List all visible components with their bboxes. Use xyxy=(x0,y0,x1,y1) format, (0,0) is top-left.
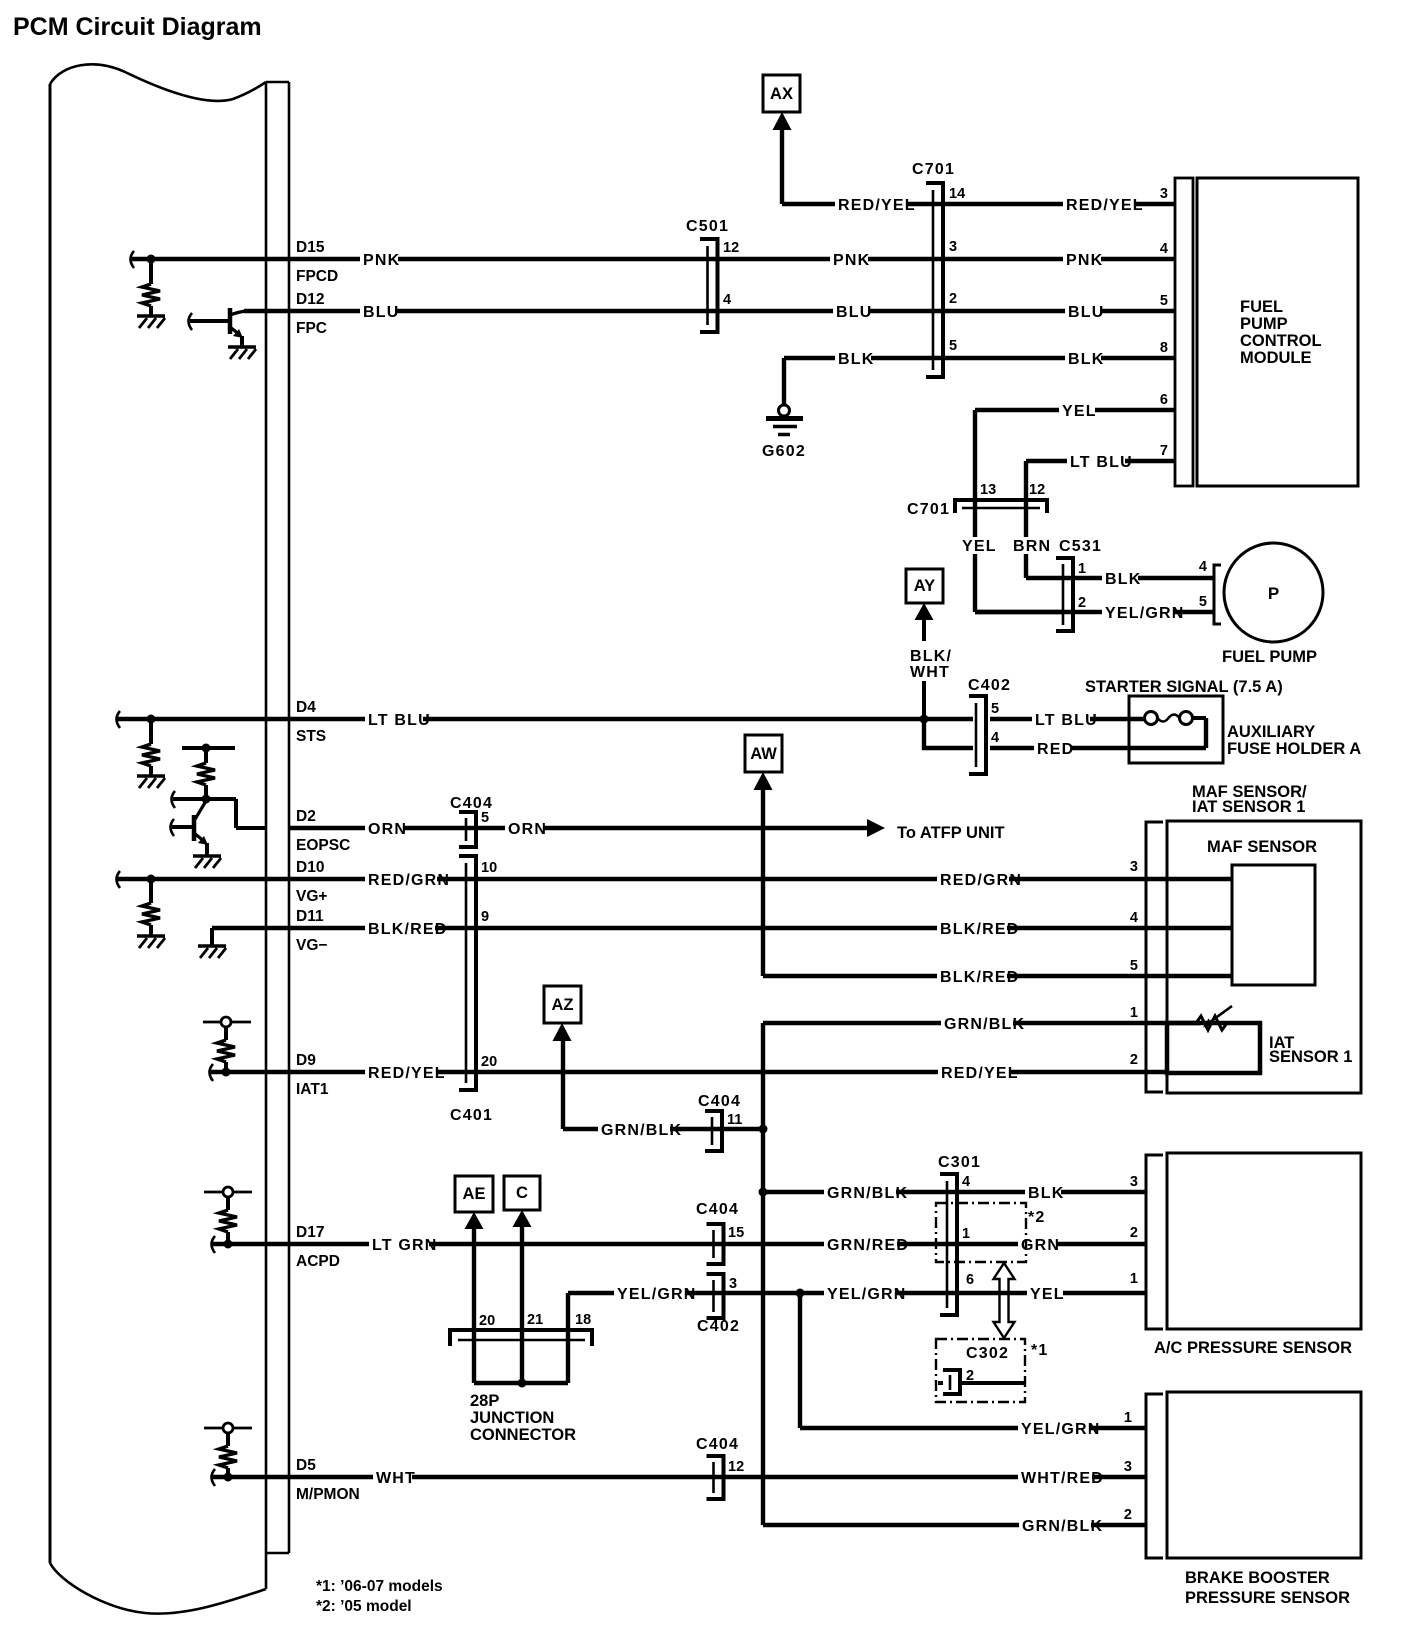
wire AX arrow shaft xyxy=(780,130,784,204)
svg-text:RED/YEL: RED/YEL xyxy=(1066,197,1144,214)
svg-text:6: 6 xyxy=(966,1272,974,1288)
PCM left edge xyxy=(49,84,52,1563)
label RED/GRN right xyxy=(937,871,1022,889)
label YEL/GRN row C301 xyxy=(824,1285,907,1303)
label RED/YEL right xyxy=(938,1064,1019,1082)
wire ORN row (D2/EOPSC) to ATFP arrow xyxy=(289,826,868,830)
svg-text:2: 2 xyxy=(1078,595,1086,611)
hook Q1 base lead-in xyxy=(189,313,193,330)
svg-text:4: 4 xyxy=(1199,559,1207,575)
svg-text:LT GRN: LT GRN xyxy=(372,1237,438,1254)
hook D10 lead-in xyxy=(117,871,121,888)
fuel pump bracket xyxy=(1214,565,1221,624)
label PNK right of C701 xyxy=(1063,251,1103,269)
label GRN/BLK row MAF1 xyxy=(941,1015,1025,1033)
wire R4 to ground xyxy=(149,925,153,936)
svg-text:1: 1 xyxy=(1130,1005,1138,1021)
label RED at C402 xyxy=(1034,740,1074,758)
hook collector line lead-in xyxy=(172,791,176,808)
IAT sensor element box xyxy=(1167,1023,1260,1073)
wire R2 to ground xyxy=(149,766,153,776)
wire LT GRN row (D17/ACPD) GRN/RED to A/C sensor pin 2 xyxy=(212,1242,1146,1246)
svg-text:GRN/BLK: GRN/BLK xyxy=(1022,1518,1103,1535)
resistor R6 (ACPD pull-up) xyxy=(219,1210,237,1232)
wire M/PMON supply rail xyxy=(204,1427,252,1430)
label D2/EOPSC xyxy=(296,808,350,854)
svg-text:BLK/: BLK/ xyxy=(910,648,952,665)
label D15/FPCD xyxy=(296,239,338,285)
svg-text:15: 15 xyxy=(728,1225,744,1241)
svg-text:AE: AE xyxy=(463,1185,486,1203)
svg-text:STS: STS xyxy=(296,728,326,745)
label GRN/BLK bottom row xyxy=(1019,1517,1103,1535)
svg-text:PRESSURE SENSOR: PRESSURE SENSOR xyxy=(1185,1589,1350,1607)
wire R1 to ground xyxy=(149,306,153,316)
svg-text:1: 1 xyxy=(962,1226,970,1242)
svg-text:5: 5 xyxy=(481,810,489,826)
svg-text:C402: C402 xyxy=(697,1318,740,1335)
svg-text:To ATFP UNIT: To ATFP UNIT xyxy=(897,824,1005,842)
svg-text:2: 2 xyxy=(1124,1507,1132,1523)
svg-text:C701: C701 xyxy=(912,161,955,178)
brake booster bracket xyxy=(1146,1394,1163,1558)
label BRN vertical xyxy=(1010,537,1051,555)
node 28P bus junction xyxy=(518,1379,527,1388)
svg-text:5: 5 xyxy=(991,701,999,717)
connector AY box xyxy=(906,569,943,719)
wire WHT row (D5/M-PMON) WHT/RED to brake booster pin 3 xyxy=(212,1475,1146,1479)
svg-text:2: 2 xyxy=(966,1368,974,1384)
label BLK/WHT xyxy=(910,648,952,681)
svg-text:D12: D12 xyxy=(296,291,324,308)
label BLU left of C701 xyxy=(833,303,872,321)
hook D15 lead-in xyxy=(131,251,135,268)
connector 28P junction (pins 20/21/18) xyxy=(450,1330,592,1346)
svg-text:P: P xyxy=(1268,584,1279,603)
wire LT BLU row corner to FPCM pin 7 xyxy=(1026,461,1175,578)
svg-text:2: 2 xyxy=(949,291,957,307)
svg-text:LT BLU: LT BLU xyxy=(368,712,431,729)
ground G602 symbol xyxy=(766,405,803,435)
wire GRN/BLK bottom row to brake booster pin 2 xyxy=(763,1523,1146,1527)
label D10/VG+ xyxy=(296,859,327,905)
resistor R3 (EOPSC pull-up) xyxy=(197,763,215,785)
connector C301 (pins 4/1/6) xyxy=(940,1174,957,1315)
svg-text:BLK/RED: BLK/RED xyxy=(368,921,448,938)
label GRN/BLK at AZ xyxy=(598,1121,682,1139)
wire G602 lead xyxy=(782,358,786,405)
connector C401 (pins 10/9/20) xyxy=(459,856,476,1090)
svg-text:YEL: YEL xyxy=(1030,1286,1065,1303)
PCM connector bar right line xyxy=(288,82,291,1553)
svg-text:10: 10 xyxy=(481,860,497,876)
svg-text:9: 9 xyxy=(481,909,489,925)
svg-text:11: 11 xyxy=(727,1112,742,1128)
svg-text:IAT1: IAT1 xyxy=(296,1081,329,1098)
ground (STS pull-down) xyxy=(137,776,165,788)
label D17/ACPD xyxy=(296,1224,340,1270)
svg-text:BRN: BRN xyxy=(1013,538,1051,555)
node supply rail junction xyxy=(202,744,211,753)
label PNK left of C701 xyxy=(830,251,870,269)
svg-text:3: 3 xyxy=(1130,1174,1138,1190)
svg-text:FPCD: FPCD xyxy=(296,268,338,285)
wire GRN/BLK row to IAT sensor pin 1 xyxy=(763,1021,1200,1025)
thermistor arrow xyxy=(1203,1006,1232,1028)
svg-text:WHT: WHT xyxy=(376,1470,416,1487)
label BLK left of C701 xyxy=(835,350,874,368)
svg-text:2: 2 xyxy=(1130,1052,1138,1068)
wire ACPD supply rail xyxy=(204,1191,252,1194)
wire BLK/RED row (D11/VG-) to MAF pin 4 xyxy=(212,926,1232,930)
wire AE arrow shaft to 28P pin 20 xyxy=(472,1227,476,1383)
label GRN/BLK row C301 xyxy=(824,1184,908,1202)
svg-text:ORN: ORN xyxy=(508,821,547,838)
svg-text:LT BLU: LT BLU xyxy=(1035,712,1098,729)
label YEL/GRN at C531 xyxy=(1102,604,1185,622)
svg-text:GRN/BLK: GRN/BLK xyxy=(827,1185,908,1202)
label BLK at C531 xyxy=(1102,570,1141,588)
svg-text:FUEL PUMP: FUEL PUMP xyxy=(1222,648,1317,666)
svg-text:28P: 28P xyxy=(470,1392,499,1410)
double arrow C301/C302 xyxy=(994,1263,1015,1338)
svg-text:WHT: WHT xyxy=(910,664,950,681)
svg-text:12: 12 xyxy=(723,240,739,256)
label GRN/RED row C301 xyxy=(824,1236,909,1254)
svg-text:12: 12 xyxy=(1029,482,1045,498)
label ORN right of C404 xyxy=(505,820,547,838)
wire R5 bottom lead xyxy=(224,1062,228,1072)
node C404-11 junction xyxy=(759,1125,768,1134)
FPCM connector bar xyxy=(1175,178,1193,486)
label PNK left of C501 xyxy=(360,251,400,269)
wire BLK row from G602 corner to FPCM pin 8 xyxy=(784,356,1175,360)
hook D17 lead-in xyxy=(212,1236,216,1253)
svg-text:4: 4 xyxy=(962,1174,970,1190)
svg-text:2: 2 xyxy=(1130,1225,1138,1241)
svg-text:3: 3 xyxy=(1160,186,1168,202)
label WHT/RED row xyxy=(1018,1469,1104,1487)
wire R7 top lead xyxy=(226,1433,230,1446)
wire YEL/GRN C531 pin2 to fuel pump pin 5 xyxy=(975,610,1214,614)
label D11/VG- xyxy=(296,908,327,954)
svg-text:ORN: ORN xyxy=(368,821,407,838)
node ACPD supply terminal circle xyxy=(223,1187,233,1197)
svg-text:VG−: VG− xyxy=(296,937,327,954)
svg-text:C501: C501 xyxy=(686,218,729,235)
svg-text:CONTROL: CONTROL xyxy=(1240,332,1322,350)
wire AZ arrow shaft xyxy=(561,1040,565,1129)
svg-text:AY: AY xyxy=(914,577,935,595)
svg-text:D10: D10 xyxy=(296,859,324,876)
svg-text:FUEL: FUEL xyxy=(1240,298,1283,316)
svg-text:D15: D15 xyxy=(296,239,325,256)
svg-text:JUNCTION: JUNCTION xyxy=(470,1409,554,1427)
svg-text:D4: D4 xyxy=(296,699,316,716)
node STS/BLK-WHT junction xyxy=(920,715,929,724)
svg-text:GRN/BLK: GRN/BLK xyxy=(944,1016,1025,1033)
connector C402 pin 3 xyxy=(707,1274,724,1318)
svg-text:YEL/GRN: YEL/GRN xyxy=(1021,1421,1101,1438)
connector C404 pin 15 xyxy=(707,1224,724,1264)
PCM connector bar left line xyxy=(265,82,268,1589)
fuse holder box xyxy=(1129,696,1223,763)
svg-text:IAT SENSOR 1: IAT SENSOR 1 xyxy=(1192,798,1305,816)
wire R5 top lead xyxy=(224,1027,228,1040)
svg-text:BLU: BLU xyxy=(363,304,399,321)
svg-text:G602: G602 xyxy=(762,443,806,460)
svg-text:RED/GRN: RED/GRN xyxy=(940,872,1022,889)
label BLK/RED row AW xyxy=(937,968,1020,986)
svg-text:ACPD: ACPD xyxy=(296,1253,340,1270)
MAF assembly outer box xyxy=(1167,821,1361,1093)
transistor Q2 (EOPSC driver) xyxy=(194,801,208,856)
label BLK at C301 xyxy=(1025,1184,1064,1202)
svg-text:RED/GRN: RED/GRN xyxy=(368,872,450,889)
svg-text:BLK: BLK xyxy=(1105,571,1141,588)
svg-text:GRN/RED: GRN/RED xyxy=(827,1237,909,1254)
connector C404 pin 12 xyxy=(707,1456,724,1499)
wire Q1 base lead xyxy=(190,319,228,323)
svg-text:YEL/GRN: YEL/GRN xyxy=(827,1286,907,1303)
svg-text:PNK: PNK xyxy=(363,252,400,269)
connector AX box xyxy=(763,75,800,130)
svg-text:5: 5 xyxy=(1130,958,1138,974)
label BLK/RED right xyxy=(937,920,1020,938)
label D4/STS xyxy=(296,699,326,745)
svg-text:C404: C404 xyxy=(698,1093,741,1110)
label D5/M-PMON xyxy=(296,1457,360,1503)
svg-text:RED/YEL: RED/YEL xyxy=(838,197,916,214)
label LT BLU at C402 xyxy=(1032,711,1098,729)
wire R6 bottom lead xyxy=(226,1232,230,1244)
svg-text:AUXILIARY: AUXILIARY xyxy=(1227,723,1315,741)
wire RED/YEL row (D9/IAT1) to MAF pin 2 xyxy=(210,1070,1167,1074)
wire BLK/RED row AW branch to MAF pin 5 xyxy=(763,974,1232,978)
resistor R5 (IAT1 pull-up) xyxy=(217,1040,235,1062)
svg-text:3: 3 xyxy=(729,1276,737,1292)
connector C531 xyxy=(1056,558,1073,631)
wire YEL/GRN row to A/C sensor pin 1 xyxy=(568,1291,1146,1295)
label FUEL PUMP CONTROL MODULE xyxy=(1240,298,1322,367)
svg-text:*2: ’05 model: *2: ’05 model xyxy=(316,1598,412,1615)
svg-text:4: 4 xyxy=(1160,241,1168,257)
label ORN left of C404 xyxy=(365,820,407,838)
wire R7 bottom lead xyxy=(226,1468,230,1477)
thermistor IAT zigzag xyxy=(1196,1016,1227,1030)
wire Q2 collector line to EOPSC pin xyxy=(173,799,266,828)
svg-text:5: 5 xyxy=(1199,594,1207,610)
svg-text:EOPSC: EOPSC xyxy=(296,837,350,854)
wire IAT1 supply rail xyxy=(203,1021,251,1024)
arrow To ATFP UNIT xyxy=(867,819,885,837)
svg-text:*1: ’06-07 models: *1: ’06-07 models xyxy=(316,1578,443,1595)
svg-text:D9: D9 xyxy=(296,1052,316,1069)
svg-text:AZ: AZ xyxy=(552,996,574,1014)
connector C302 (pin 2) xyxy=(938,1370,1024,1394)
wire R3 top lead xyxy=(204,748,208,763)
ground (VG+ pull-down) xyxy=(137,936,165,948)
svg-text:1: 1 xyxy=(1078,561,1086,577)
node Q2 collector junction xyxy=(202,795,211,804)
wire BLU row (D12/FPC) transistor to FPCM pin 5 xyxy=(244,309,1175,313)
node PNK junction xyxy=(147,255,156,264)
svg-text:VG+: VG+ xyxy=(296,888,327,905)
svg-text:C401: C401 xyxy=(450,1107,493,1124)
svg-text:MAF SENSOR: MAF SENSOR xyxy=(1207,838,1317,856)
node IAT1 junction xyxy=(222,1068,231,1077)
svg-text:C404: C404 xyxy=(696,1201,739,1218)
ground (Q1 emitter) xyxy=(228,347,256,359)
wire resistor lead R4 xyxy=(149,879,153,903)
node ACPD junction xyxy=(224,1240,233,1249)
ground (FPCD pull-down) xyxy=(137,316,165,328)
node M/PMON supply terminal circle xyxy=(223,1423,233,1433)
svg-text:A/C PRESSURE SENSOR: A/C PRESSURE SENSOR xyxy=(1154,1339,1352,1357)
svg-text:4: 4 xyxy=(991,730,999,746)
svg-text:M/PMON: M/PMON xyxy=(296,1486,360,1503)
svg-text:YEL: YEL xyxy=(962,538,997,555)
wire GRN/BLK row to A/C sensor pin 3 xyxy=(763,1190,1146,1194)
wire RED/YEL row from AX corner to FPCM pin 3 xyxy=(782,202,1175,206)
svg-text:7: 7 xyxy=(1160,443,1168,459)
svg-text:PNK: PNK xyxy=(1066,252,1103,269)
wire resistor lead R2 xyxy=(149,719,153,744)
svg-text:GRN/BLK: GRN/BLK xyxy=(601,1122,682,1139)
svg-text:C402: C402 xyxy=(968,677,1011,694)
label YEL at C301 xyxy=(1027,1285,1065,1303)
svg-text:C531: C531 xyxy=(1059,538,1102,555)
label WHT at D5 xyxy=(373,1469,416,1487)
svg-text:21: 21 xyxy=(527,1312,543,1328)
svg-text:PUMP: PUMP xyxy=(1240,315,1288,333)
svg-text:BLU: BLU xyxy=(836,304,872,321)
svg-text:FPC: FPC xyxy=(296,320,327,337)
svg-text:D2: D2 xyxy=(296,808,316,825)
label GRN at C301 xyxy=(1018,1236,1060,1254)
svg-text:C: C xyxy=(516,1184,528,1202)
hook D4 lead-in xyxy=(117,711,121,728)
svg-text:AW: AW xyxy=(750,745,777,763)
hook D5 lead-in xyxy=(212,1469,216,1486)
connector C701 (horizontal, pins 13/12) xyxy=(955,500,1047,513)
svg-text:STARTER SIGNAL (7.5 A): STARTER SIGNAL (7.5 A) xyxy=(1085,678,1283,696)
wire C arrow shaft to 28P pin 21 xyxy=(520,1225,524,1383)
hook Q2 base lead-in xyxy=(171,819,175,836)
svg-text:8: 8 xyxy=(1160,340,1168,356)
svg-text:MODULE: MODULE xyxy=(1240,349,1312,367)
PCM top wavy edge xyxy=(50,64,266,101)
svg-text:YEL: YEL xyxy=(1062,403,1097,420)
wire LT BLU row (D4/STS) to C402 pin 5 and fuse xyxy=(117,717,1146,721)
wire RED/GRN row (D10/VG+) to MAF pin 3 xyxy=(117,877,1232,881)
label RED/YEL right of C701 xyxy=(1063,196,1144,214)
label RED/YEL left xyxy=(365,1064,446,1082)
connector C501 xyxy=(700,239,718,332)
label D9/IAT1 xyxy=(296,1052,329,1098)
label 28P JUNCTION CONNECTOR xyxy=(470,1392,576,1444)
transistor Q1 (FPC driver) xyxy=(230,308,246,347)
wire YEL vertical to C531 pin 2 xyxy=(975,610,1063,614)
svg-text:3: 3 xyxy=(1130,859,1138,875)
svg-text:12: 12 xyxy=(728,1459,744,1475)
svg-text:BRAKE BOOSTER: BRAKE BOOSTER xyxy=(1185,1569,1330,1587)
svg-text:BLU: BLU xyxy=(1068,304,1104,321)
svg-text:4: 4 xyxy=(723,292,731,308)
svg-text:YEL/GRN: YEL/GRN xyxy=(617,1286,697,1303)
svg-text:RED/YEL: RED/YEL xyxy=(368,1065,446,1082)
label LT BLU row 7 xyxy=(1067,453,1133,471)
wire resistor lead R1 xyxy=(149,259,153,284)
MAF inner box xyxy=(1232,865,1315,985)
svg-text:3: 3 xyxy=(1124,1459,1132,1475)
svg-text:PNK: PNK xyxy=(833,252,870,269)
dashed box *2 (C301 05 model) xyxy=(936,1203,1026,1262)
label YEL/GRN row 2 xyxy=(1018,1420,1101,1438)
fuel pump circle xyxy=(1224,543,1323,642)
label BLK/RED left xyxy=(365,920,448,938)
wire 28P bus xyxy=(474,1381,568,1385)
PCM bottom wavy edge xyxy=(50,1563,266,1614)
svg-text:WHT/RED: WHT/RED xyxy=(1021,1470,1104,1487)
wire GRN/BLK from AZ corner through C404-11 xyxy=(563,1127,763,1131)
wire YEL row corner to FPCM pin 6 xyxy=(975,410,1175,612)
wire PNK row (D15/FPCD) from hook to FPCM pin 4 xyxy=(131,257,1175,261)
node YEL/GRN branch junction xyxy=(796,1289,805,1298)
wire YEL/GRN row 2 to brake booster pin 1 xyxy=(800,1426,1146,1430)
svg-text:13: 13 xyxy=(980,482,996,498)
label YEL vertical xyxy=(959,537,997,555)
label RED/GRN left xyxy=(365,871,450,889)
hook D9 lead-in xyxy=(210,1064,214,1081)
svg-text:D5: D5 xyxy=(296,1457,316,1474)
svg-text:BLK: BLK xyxy=(1068,351,1104,368)
svg-text:AX: AX xyxy=(770,85,793,103)
wire BLK row C531 pin1 to fuel pump pin 4 xyxy=(1026,576,1214,580)
svg-text:3: 3 xyxy=(949,239,957,255)
svg-text:BLK: BLK xyxy=(838,351,874,368)
FPCM module box xyxy=(1197,178,1358,486)
svg-text:20: 20 xyxy=(479,1313,495,1329)
brake booster box xyxy=(1167,1392,1361,1558)
svg-text:SENSOR 1: SENSOR 1 xyxy=(1269,1048,1352,1066)
svg-text:D17: D17 xyxy=(296,1224,324,1241)
wire Q2 base lead xyxy=(172,825,192,829)
connector C701 (vertical) xyxy=(926,183,943,377)
node IAT1 supply terminal circle xyxy=(221,1017,231,1027)
fuse element xyxy=(1145,712,1207,725)
svg-text:BLK: BLK xyxy=(1028,1185,1064,1202)
svg-text:RED: RED xyxy=(1037,741,1074,758)
wire long vertical GRN/BLK bus xyxy=(761,1023,765,1525)
wire AW arrow shaft xyxy=(761,790,765,976)
svg-text:*1: *1 xyxy=(1031,1342,1049,1359)
A/C sensor box xyxy=(1167,1153,1361,1329)
connector C404 pin 11 xyxy=(705,1111,722,1151)
label LT BLU at STS xyxy=(365,711,431,729)
svg-text:BLK/RED: BLK/RED xyxy=(940,921,1020,938)
wire VG- internal ground lead xyxy=(210,928,214,946)
svg-text:C701: C701 xyxy=(907,501,950,518)
connector AZ box xyxy=(544,986,581,1041)
svg-text:14: 14 xyxy=(949,186,965,202)
ground (VG-) xyxy=(198,946,226,958)
dashed box *1 (C302 06-07 models) xyxy=(936,1339,1025,1402)
label MAF SENSOR/IAT SENSOR 1 xyxy=(1192,783,1307,816)
label D12/FPC xyxy=(296,291,327,337)
connector C402 (pins 5/4) xyxy=(969,696,986,774)
svg-text:YEL/GRN: YEL/GRN xyxy=(1105,605,1185,622)
